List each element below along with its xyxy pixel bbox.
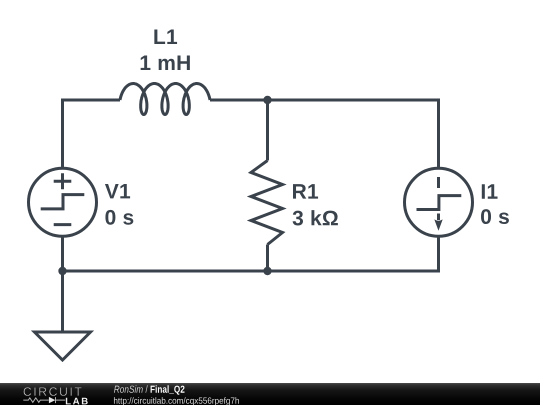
footer title: RonSim / Final_Q2 <box>114 385 184 394</box>
label R1 <box>293 184 318 198</box>
logo text LAB <box>66 398 88 405</box>
I1 step waveform <box>417 196 462 210</box>
I1 arrow shaft <box>437 214 440 221</box>
logo diode triangle <box>49 397 55 403</box>
logo resistor squiggle wire <box>23 397 65 403</box>
label L1 value 1 mH <box>141 56 190 70</box>
label I1 <box>482 184 498 198</box>
label V1 value 0 s <box>105 210 133 225</box>
V1 plus sign <box>54 173 72 189</box>
label I1 value 0 s <box>481 209 509 224</box>
footer bar <box>0 383 540 405</box>
label V1 <box>105 184 130 198</box>
wire: inductor right to I1 top <box>210 100 439 169</box>
wire: V1 top to inductor left <box>63 100 121 169</box>
current source I1 circle <box>405 168 473 236</box>
voltage source V1 circle <box>29 168 97 236</box>
V1 step waveform <box>41 195 85 209</box>
I1 top dash <box>437 177 440 188</box>
label L1 <box>154 30 177 44</box>
inductor L1 coil <box>120 84 210 115</box>
wire: bottom rail <box>63 237 439 272</box>
wire: R1 top stub <box>266 100 269 161</box>
V1 minus sign <box>54 223 72 226</box>
label R1 value 3 kOhm <box>293 210 338 225</box>
I1 arrow head <box>434 219 442 230</box>
resistor R1 zigzag <box>251 161 283 245</box>
footer url <box>114 397 239 405</box>
node dot: bottom middle junction <box>263 267 271 275</box>
logo text CIRCUIT <box>24 387 82 396</box>
wire: ground stub <box>61 271 64 332</box>
ground symbol triangle <box>35 332 91 360</box>
node dot: bottom left junction <box>58 267 66 275</box>
node dot: top junction <box>263 96 271 104</box>
wire: R1 bottom stub <box>266 245 269 272</box>
